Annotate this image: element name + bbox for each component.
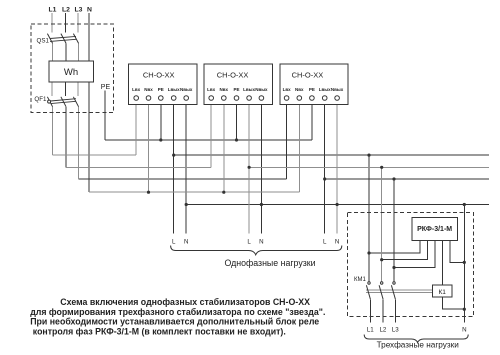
svg-text:При необходимости устанавливае: При необходимости устанавливается дополн…: [30, 317, 319, 327]
svg-text:Nвых: Nвых: [331, 87, 344, 92]
svg-text:Однофазные нагрузки: Однофазные нагрузки: [224, 258, 315, 268]
svg-text:QF1: QF1: [34, 96, 47, 103]
svg-text:L: L: [247, 239, 251, 246]
svg-text:контроля фаз РКФ-3/1-М (в комп: контроля фаз РКФ-3/1-М (в комплект поста…: [33, 326, 286, 336]
svg-text:PE: PE: [233, 87, 239, 92]
svg-text:L: L: [323, 239, 327, 246]
svg-text:N: N: [184, 239, 188, 246]
svg-text:N: N: [335, 239, 339, 246]
svg-text:Схема включения однофазных ста: Схема включения однофазных стабилизаторо…: [60, 297, 310, 307]
svg-text:Nвх: Nвх: [295, 87, 304, 92]
svg-text:Nвх: Nвх: [144, 87, 153, 92]
svg-text:PE: PE: [309, 87, 315, 92]
svg-text:Wh: Wh: [64, 67, 78, 78]
svg-text:L1: L1: [49, 6, 57, 13]
svg-text:Lвых: Lвых: [319, 87, 331, 92]
svg-text:QS1: QS1: [37, 37, 50, 44]
svg-text:Nвых: Nвых: [180, 87, 193, 92]
svg-text:N: N: [462, 327, 466, 334]
svg-text:L1: L1: [367, 327, 374, 334]
svg-text:Nвых: Nвых: [255, 87, 268, 92]
svg-text:L2: L2: [379, 327, 386, 334]
svg-text:СН-О-ХХ: СН-О-ХХ: [143, 71, 175, 80]
svg-text:N: N: [87, 6, 92, 13]
svg-text:N: N: [259, 239, 263, 246]
svg-text:PE: PE: [158, 87, 164, 92]
svg-text:Lвх: Lвх: [207, 87, 216, 92]
svg-text:К1: К1: [438, 289, 446, 296]
svg-text:Lвх: Lвх: [283, 87, 292, 92]
svg-text:СН-О-ХХ: СН-О-ХХ: [292, 71, 324, 80]
svg-text:Lвых: Lвых: [243, 87, 255, 92]
svg-text:КМ1: КМ1: [354, 277, 366, 283]
svg-text:L3: L3: [392, 327, 399, 334]
svg-text:L3: L3: [75, 6, 83, 13]
svg-text:для формирования трехфазного с: для формирования трехфазного стабилизато…: [30, 307, 325, 317]
svg-text:L: L: [172, 239, 176, 246]
svg-text:L2: L2: [62, 6, 70, 13]
svg-text:Lвых: Lвых: [168, 87, 180, 92]
svg-text:СН-О-ХХ: СН-О-ХХ: [217, 71, 249, 80]
svg-text:Lвх: Lвх: [132, 87, 141, 92]
svg-text:Трехфазные нагрузки: Трехфазные нагрузки: [377, 341, 459, 350]
svg-text:РКФ-3/1-М: РКФ-3/1-М: [417, 226, 452, 233]
svg-text:PE: PE: [101, 84, 111, 91]
svg-text:Nвх: Nвх: [220, 87, 229, 92]
